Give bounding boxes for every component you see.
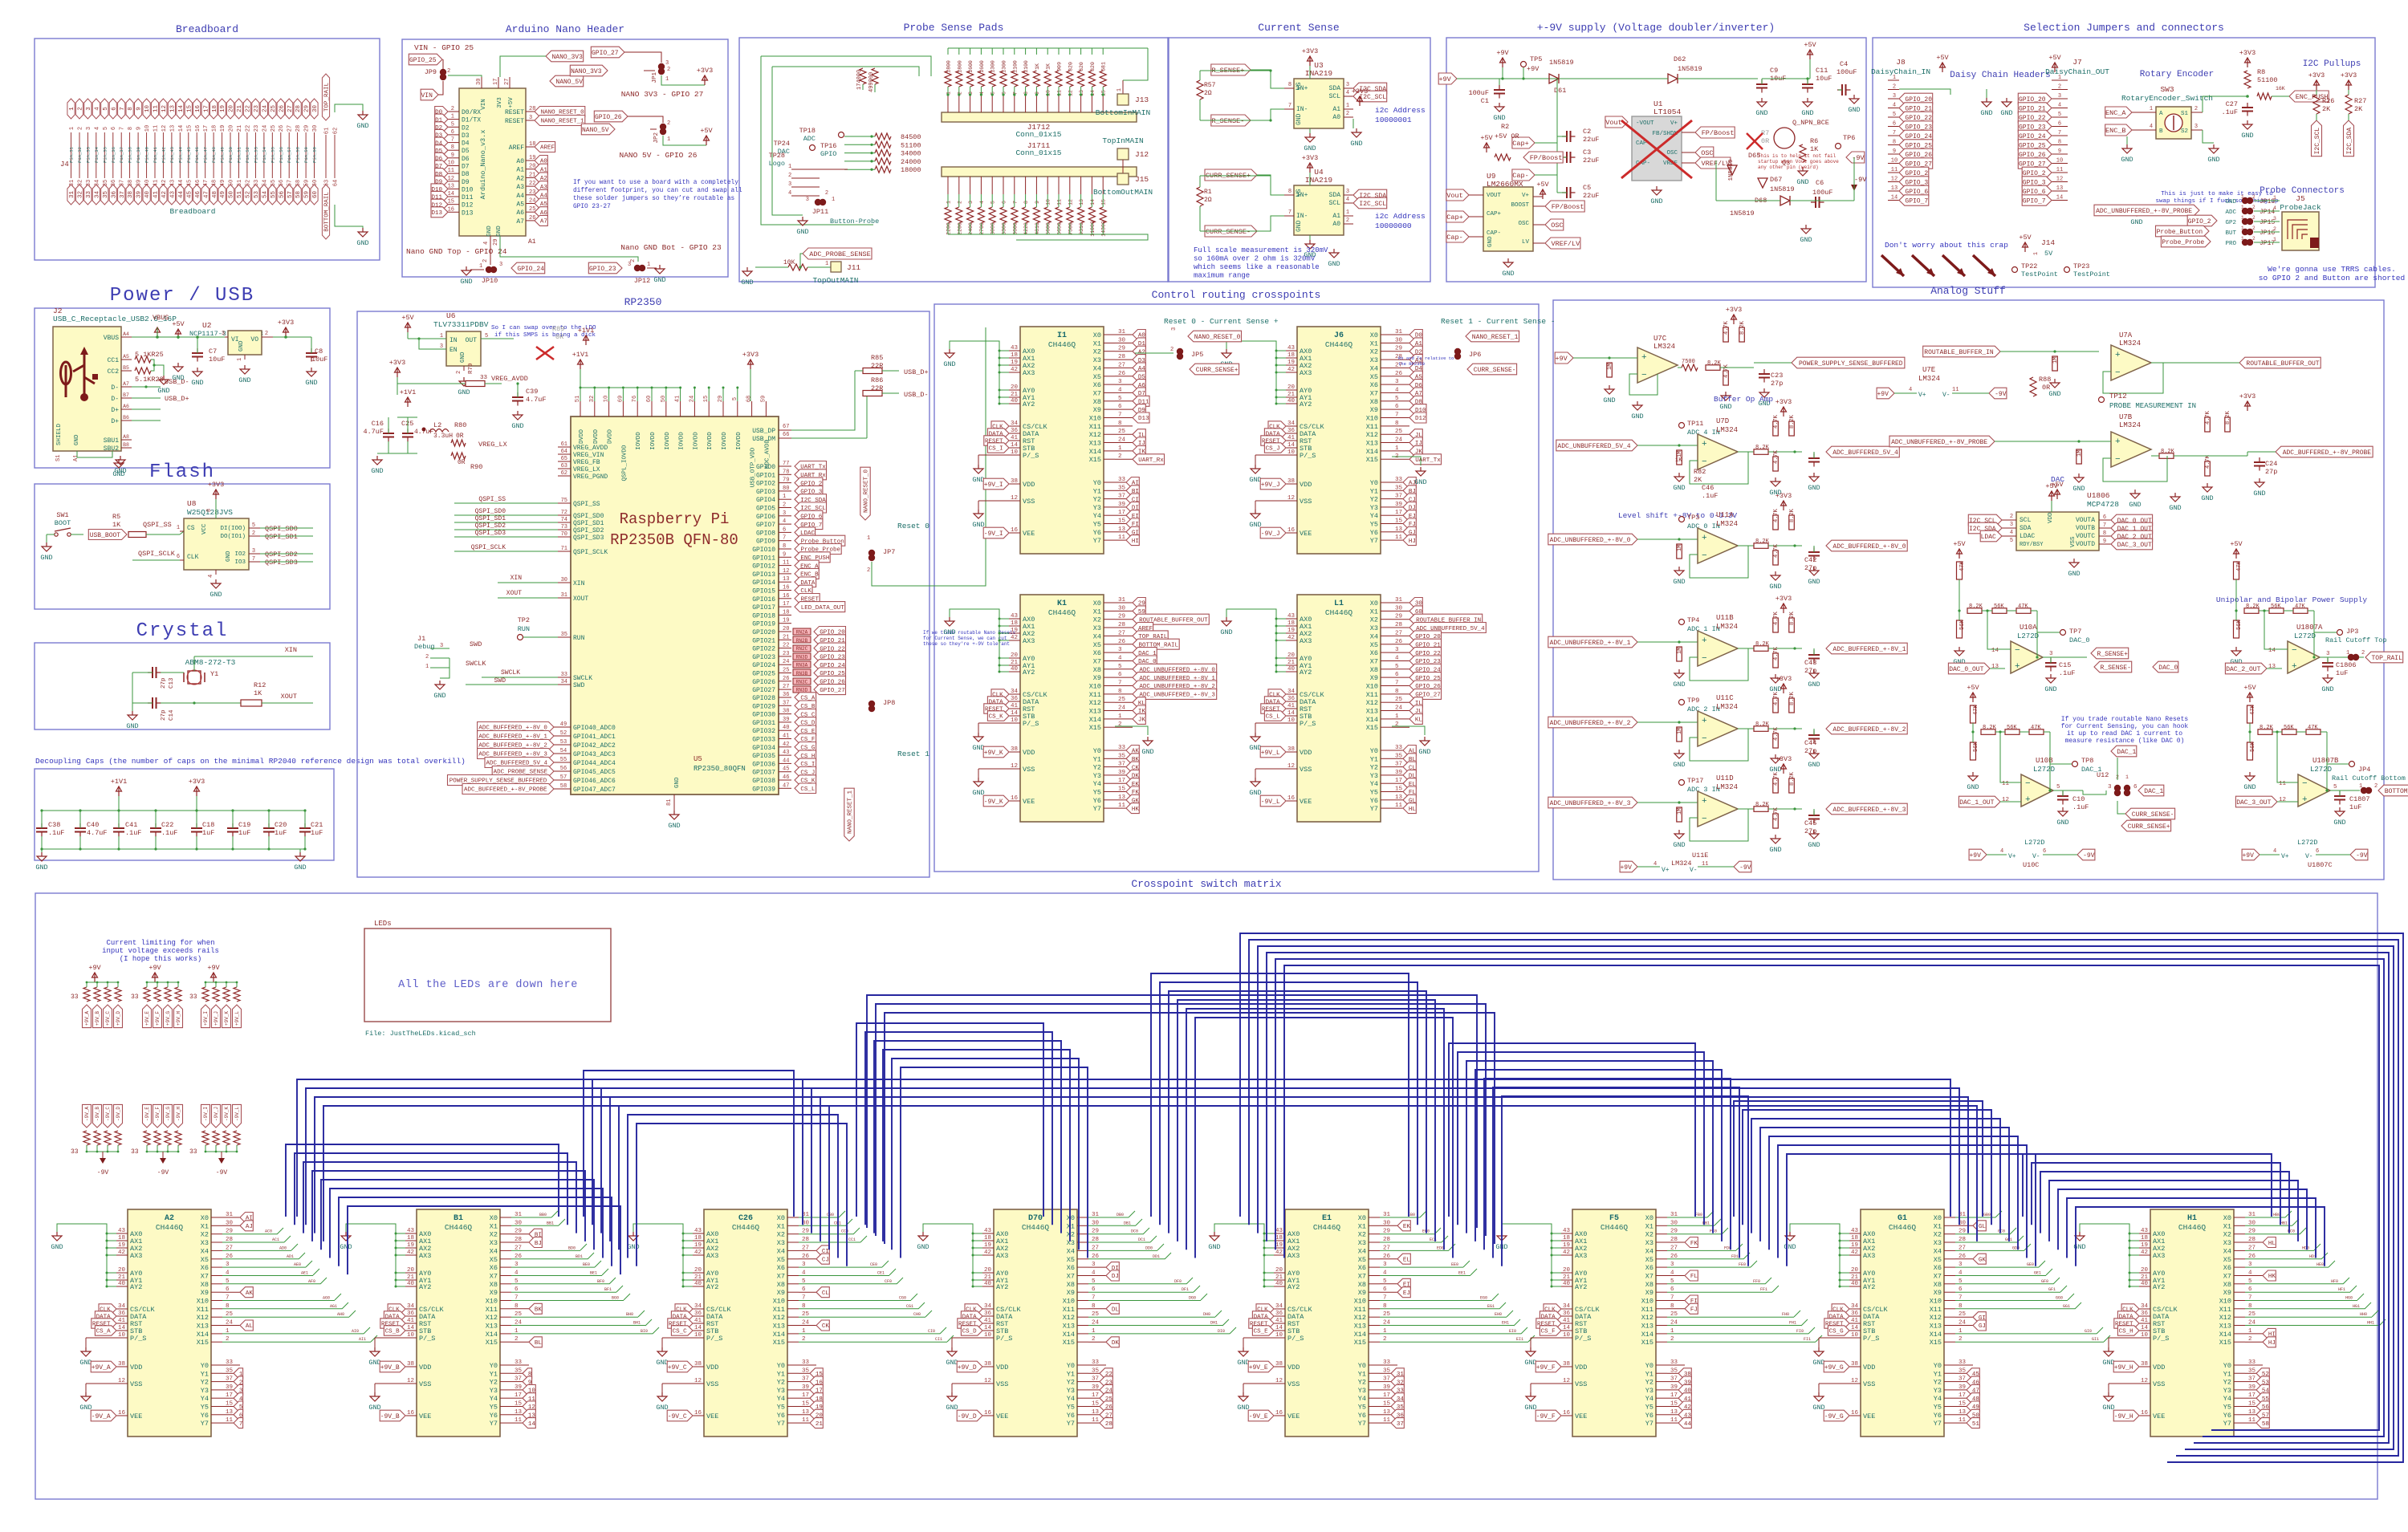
svg-text:36: 36 [1287,428,1296,434]
svg-text:12: 12 [1068,199,1073,205]
svg-text:X11: X11 [1354,1306,1366,1314]
svg-text:Y0: Y0 [1370,479,1378,487]
svg-text:S1: S1 [55,455,62,461]
svg-text:14: 14 [1851,1325,1859,1331]
svg-text:Analog Stuff: Analog Stuff [1930,285,2006,297]
svg-text:D1/TX: D1/TX [462,117,481,124]
svg-text:CH446Q: CH446Q [1889,1223,1917,1232]
svg-text:8.2K: 8.2K [1969,603,1983,610]
svg-text:AY2: AY2 [1023,668,1035,677]
svg-text:Y2: Y2 [1358,1379,1366,1387]
svg-text:VSS: VSS [1287,1380,1300,1388]
svg-text:BG0: BG0 [612,1296,619,1301]
svg-text:X7: X7 [490,1273,498,1281]
svg-text:7: 7 [252,556,255,563]
svg-text:NANO_5V: NANO_5V [582,127,609,134]
svg-text:3: 3 [2194,124,2198,130]
svg-text:DI(IOO): DI(IOO) [220,526,246,532]
svg-text:Pin_53: Pin_53 [253,147,258,163]
svg-text:33: 33 [189,994,197,1001]
svg-text:GND: GND [972,476,984,484]
svg-text:1300: 1300 [1002,60,1007,73]
svg-text:47K: 47K [2308,725,2318,731]
svg-text:43: 43 [1011,613,1019,620]
svg-text:Y0: Y0 [1645,1362,1653,1370]
svg-text:33: 33 [561,672,567,678]
svg-text:IOVDD: IOVDD [636,432,642,450]
svg-text:AX3: AX3 [706,1252,718,1260]
svg-text:AY2: AY2 [1287,1283,1300,1291]
svg-text:20: 20 [229,125,235,132]
svg-text:Y7: Y7 [1093,805,1101,813]
svg-text:U5: U5 [694,755,702,763]
svg-text:Pin_48: Pin_48 [211,147,217,163]
svg-text:18: 18 [1563,1235,1570,1241]
svg-text:+3V3: +3V3 [1302,154,1318,162]
svg-text:X14: X14 [1089,448,1101,456]
svg-text:VSS: VSS [706,1380,718,1388]
svg-text:HJ: HJ [2268,1340,2276,1347]
svg-text:9: 9 [2058,148,2061,155]
svg-text:16: 16 [118,1410,126,1416]
svg-text:GND: GND [917,1243,929,1251]
svg-text:29: 29 [304,105,311,112]
svg-text:GPIO30: GPIO30 [752,712,775,719]
svg-text:36: 36 [118,1311,126,1317]
svg-text:48: 48 [212,191,218,198]
svg-text:+3V3: +3V3 [742,351,759,359]
svg-text:+9V_I: +9V_I [203,1011,209,1026]
svg-text:J8: J8 [1896,58,1906,67]
svg-text:I1: I1 [1057,331,1067,340]
svg-text:11: 11 [2056,167,2063,173]
svg-text:V+: V+ [2008,853,2016,860]
svg-text:41: 41 [1851,1318,1859,1324]
svg-text:Pin_47: Pin_47 [203,147,209,163]
svg-text:Y4: Y4 [777,1395,785,1403]
svg-text:10: 10 [1011,449,1019,456]
svg-text:2: 2 [1893,84,1896,91]
svg-text:B6: B6 [123,415,129,421]
svg-text:1: 1 [2241,215,2244,221]
svg-text:Reset 1 - Current Sense -: Reset 1 - Current Sense - [1441,317,1556,326]
svg-text:X5: X5 [201,1256,209,1264]
svg-text:X8: X8 [1370,666,1378,674]
svg-text:59: 59 [760,396,767,402]
svg-text:VREG_PGND: VREG_PGND [573,473,608,481]
svg-text:LM324: LM324 [1671,859,1692,868]
svg-text:6: 6 [2043,848,2046,855]
svg-text:+1V1: +1V1 [400,388,416,396]
svg-text:CH446Q: CH446Q [1022,1223,1050,1232]
svg-text:1: 1 [177,525,180,531]
svg-text:820: 820 [1068,62,1073,71]
svg-text:GND: GND [157,387,169,395]
svg-text:SW1: SW1 [56,511,68,519]
svg-text:49: 49 [220,191,226,198]
svg-text:4: 4 [208,575,214,578]
svg-text:D9: D9 [462,179,470,186]
svg-text:GI1: GI1 [2092,1337,2099,1342]
svg-text:43: 43 [984,1228,992,1234]
svg-text:41: 41 [694,1318,702,1324]
svg-text:Y4: Y4 [1370,512,1378,520]
svg-text:1M: 1M [1677,545,1683,551]
svg-text:X10: X10 [1930,1298,1942,1306]
svg-text:X9: X9 [1093,674,1101,682]
svg-text:.1uF: .1uF [2222,108,2238,116]
svg-text:GPIO24: GPIO24 [752,662,775,669]
svg-text:Pin_51: Pin_51 [237,146,242,163]
svg-text:1: 1 [69,127,75,130]
svg-text:these so they’re +-9V tolerant: these so they’re +-9V tolerant [923,641,1010,647]
svg-text:Conn_01x15: Conn_01x15 [1015,148,1061,157]
svg-text:Y5: Y5 [1093,521,1101,529]
svg-text:CURR_SENSE+: CURR_SENSE+ [2128,823,2170,831]
svg-text:6: 6 [1002,201,1007,204]
svg-text:QSPI_SS: QSPI_SS [143,521,172,529]
svg-text:16: 16 [1287,527,1296,534]
svg-text:+9V_H: +9V_H [2114,1364,2133,1371]
svg-text:CS_D: CS_D [962,1329,978,1335]
svg-text:If you want to use a board wit: If you want to use a board with a comple… [573,180,738,186]
svg-text:U1807C: U1807C [2308,861,2333,869]
svg-text:IOVDD: IOVDD [665,432,671,450]
svg-text:Y2: Y2 [1645,1379,1653,1387]
svg-text:Y7: Y7 [1370,805,1378,813]
svg-text:−: − [1702,457,1707,467]
svg-text:8: 8 [451,144,454,151]
svg-text:8: 8 [1023,201,1029,204]
svg-text:GND: GND [946,1404,958,1412]
svg-text:VDD: VDD [1575,1363,1587,1371]
svg-text:X8: X8 [1067,1281,1075,1289]
svg-text:GND: GND [674,777,681,788]
svg-text:56K: 56K [2236,620,2243,630]
svg-text:UART_Tx: UART_Tx [1415,457,1441,464]
svg-text:X7: X7 [1934,1273,1942,1281]
svg-text:X5: X5 [1934,1256,1942,1264]
svg-text:27: 27 [504,79,510,85]
svg-text:A6: A6 [516,209,524,217]
svg-text:GND: GND [2225,199,2236,205]
svg-text:ADC_UNBUFFERED_+-8V_3: ADC_UNBUFFERED_+-8V_3 [1550,800,1631,807]
svg-text:1K: 1K [1046,63,1051,70]
svg-text:Y0: Y0 [777,1362,785,1370]
svg-text:X9: X9 [1934,1289,1942,1297]
svg-text:Buffer Op Amp: Buffer Op Amp [1714,395,1773,404]
svg-text:IO2: IO2 [234,551,246,558]
svg-text:U1807A: U1807A [2296,624,2323,632]
svg-text:1: 1 [451,114,454,120]
svg-text:SWD: SWD [573,682,585,689]
svg-text:14: 14 [1563,1325,1571,1331]
svg-text:DL: DL [1112,1307,1120,1314]
svg-text:AG1: AG1 [330,1304,337,1309]
svg-text:19: 19 [1275,1242,1283,1249]
svg-text:34: 34 [1287,421,1296,427]
svg-text:GND: GND [1808,761,1820,769]
svg-text:38: 38 [407,1361,414,1367]
svg-text:Unipolar and Bipolar Power Sup: Unipolar and Bipolar Power Supply [2216,595,2367,604]
svg-text:-9V_A: -9V_A [92,1413,111,1420]
svg-text:GND: GND [2056,819,2068,827]
svg-text:27: 27 [783,684,789,690]
svg-text:TP2: TP2 [518,616,530,624]
svg-text:VREG_AVDD: VREG_AVDD [573,445,608,452]
svg-text:U7A: U7A [2119,331,2133,339]
svg-text:GPIO 23-27: GPIO 23-27 [573,204,611,210]
svg-text:GND: GND [2102,1359,2114,1367]
svg-text:L2: L2 [433,421,441,429]
svg-text:X12: X12 [1063,1314,1075,1322]
svg-text:-9V: -9V [97,1169,109,1176]
svg-text:GPIO43_ADC3: GPIO43_ADC3 [573,751,616,758]
svg-text:BOOT: BOOT [55,519,71,527]
svg-text:Y3: Y3 [1358,1387,1366,1395]
svg-text:Y2: Y2 [1934,1379,1942,1387]
svg-text:VOUTB: VOUTB [2076,525,2095,532]
svg-text:AX3: AX3 [1023,637,1035,645]
svg-text:X2: X2 [1370,348,1378,356]
svg-text:41: 41 [1563,1318,1571,1324]
svg-text:X12: X12 [773,1314,785,1322]
svg-text:38: 38 [783,709,789,715]
svg-text:TP22: TP22 [2021,262,2037,270]
svg-text:6: 6 [2133,784,2138,790]
svg-text:GND: GND [2102,1404,2114,1412]
svg-text:AX3: AX3 [1575,1252,1587,1260]
svg-text:35: 35 [103,191,109,199]
svg-text:1: 1 [832,197,835,203]
svg-text:X4: X4 [1645,1247,1653,1255]
svg-text:5600: 5600 [1046,222,1051,235]
svg-text:CS_J: CS_J [1266,446,1280,453]
svg-text:TP23: TP23 [2073,262,2089,270]
svg-text:AK: AK [246,1290,254,1297]
svg-text:X12: X12 [1930,1314,1942,1322]
svg-text:-9V_C: -9V_C [105,1107,111,1121]
svg-text:V+: V+ [2281,853,2289,860]
svg-text:DD1: DD1 [1153,1254,1160,1259]
svg-text:44: 44 [178,191,185,199]
svg-text:RN3B: RN3B [796,671,808,677]
svg-text:C1806: C1806 [2336,661,2357,669]
svg-text:Pin_58: Pin_58 [295,147,301,163]
svg-text:+: + [1702,797,1707,807]
svg-text:VSS: VSS [1023,766,1035,774]
svg-text:1K: 1K [254,689,262,697]
svg-text:LM324: LM324 [1653,343,1675,351]
svg-text:X4: X4 [1067,1247,1075,1255]
svg-text:28: 28 [1105,1421,1112,1428]
svg-text:HL: HL [1409,807,1417,813]
svg-text:Crosspoint switch matrix: Crosspoint switch matrix [1131,878,1281,890]
svg-text:This is just to make it easy t: This is just to make it easy to [2161,191,2273,197]
svg-text:56K: 56K [1959,620,1966,630]
svg-text:6: 6 [111,127,117,130]
svg-text:8: 8 [2103,530,2106,537]
svg-text:GND: GND [433,692,445,700]
svg-text:Probe Sense Pads: Probe Sense Pads [904,22,1004,34]
svg-text:56K: 56K [2284,725,2294,731]
svg-text:SWD: SWD [470,640,482,648]
svg-text:X6: X6 [490,1264,498,1272]
svg-text:X8: X8 [201,1281,209,1289]
svg-text:1: 1 [825,261,828,267]
svg-text:10: 10 [448,161,454,167]
svg-text:18000: 18000 [901,166,921,174]
svg-text:.1uF: .1uF [48,829,64,837]
svg-text:Pin_36: Pin_36 [111,147,116,163]
svg-text:14: 14 [1287,710,1296,717]
svg-text:Y4: Y4 [1093,780,1101,788]
svg-text:GND: GND [656,1359,668,1367]
svg-text:X5: X5 [490,1256,498,1264]
svg-text:DH0: DH0 [1203,1312,1210,1317]
svg-text:+9V_A: +9V_A [84,1011,90,1026]
svg-text:GPIO: GPIO [820,150,836,158]
svg-text:47K: 47K [2031,725,2041,731]
svg-text:GND: GND [1220,628,1232,636]
svg-text:2K: 2K [2322,105,2331,113]
svg-text:+5V: +5V [2230,540,2243,548]
svg-text:L272D: L272D [2294,632,2316,640]
svg-text:4.7uF: 4.7uF [87,829,108,837]
svg-text:U11E: U11E [1692,851,1708,859]
svg-text:DAC_3_OUT: DAC_3_OUT [2117,542,2152,549]
svg-text:20: 20 [229,105,235,113]
svg-text:56K: 56K [2007,725,2017,731]
svg-text:SCL: SCL [1329,93,1341,100]
svg-text:D8: D8 [462,171,470,178]
svg-text:36: 36 [1287,696,1296,702]
svg-text:Full scale measurement is 320m: Full scale measurement is 320mV [1194,246,1328,254]
svg-text:1300: 1300 [990,60,996,73]
svg-text:DAC_0_OUT: DAC_0_OUT [1949,666,1983,673]
svg-text:J7: J7 [2072,58,2081,67]
svg-text:QSPI_SCLK: QSPI_SCLK [573,549,608,556]
svg-text:11: 11 [153,105,160,113]
svg-text:+9V_B: +9V_B [380,1364,400,1371]
svg-text:18: 18 [1287,620,1295,627]
svg-text:57: 57 [560,774,567,781]
svg-text:EL: EL [1403,1258,1411,1264]
svg-text:X13: X13 [486,1323,498,1331]
svg-text:34: 34 [984,1303,992,1310]
svg-text:NANO_RESET_0: NANO_RESET_0 [1194,334,1241,341]
svg-text:Y5: Y5 [201,1404,209,1412]
svg-text:X13: X13 [1366,440,1378,448]
svg-text:USB_D+: USB_D+ [904,368,929,376]
svg-text:GND: GND [656,1404,668,1412]
svg-text:21: 21 [2141,1274,2149,1281]
svg-text:Y3: Y3 [1093,772,1101,780]
svg-text:56K: 56K [2271,603,2281,610]
svg-text:Rail Cutoff Bottom: Rail Cutoff Bottom [2332,774,2406,782]
svg-text:-9V_A: -9V_A [84,1107,90,1121]
svg-text:GND: GND [172,374,184,382]
svg-text:LT1054: LT1054 [1653,108,1682,116]
svg-text:X9: X9 [1067,1289,1075,1297]
svg-text:X6: X6 [1934,1264,1942,1272]
svg-text:1uF: 1uF [2349,803,2361,811]
svg-text:GND: GND [1796,178,1808,186]
svg-text:38: 38 [118,1361,125,1367]
svg-text:8.2K: 8.2K [1755,538,1770,545]
svg-text:2: 2 [2252,194,2255,200]
svg-text:41: 41 [984,1318,992,1324]
svg-text:62: 62 [333,128,340,134]
svg-text:34: 34 [1287,689,1296,695]
svg-text:27p: 27p [2265,468,2277,476]
svg-text:27: 27 [287,125,294,132]
svg-text:10: 10 [1851,1332,1859,1339]
svg-text:HH1: HH1 [2367,1321,2374,1326]
svg-text:I2C Pullups: I2C Pullups [2303,59,2361,69]
svg-text:1: 1 [479,263,482,270]
svg-text:41: 41 [1287,435,1296,441]
svg-text:RUN: RUN [518,625,530,633]
svg-text:JP2: JP2 [653,132,660,144]
svg-text:GPIO11: GPIO11 [752,555,775,562]
svg-text:X4: X4 [1370,632,1378,640]
svg-text:10: 10 [1275,1332,1283,1339]
svg-text:CS: CS [187,525,195,532]
svg-text:X3: X3 [1358,1239,1366,1247]
svg-text:QSPL_IOVDD: QSPL_IOVDD [621,445,628,482]
svg-text:4: 4 [2273,205,2276,211]
svg-text:56: 56 [560,766,567,772]
svg-text:63: 63 [561,463,567,469]
svg-text:X1: X1 [1093,339,1101,347]
svg-text:−: − [2292,646,2297,656]
svg-text:Current limiting for when: Current limiting for when [106,939,214,947]
svg-text:GND: GND [1980,109,1992,117]
svg-text:A1: A1 [528,238,536,246]
svg-text:14: 14 [528,1421,536,1428]
svg-text:+9V_E: +9V_E [144,1011,150,1026]
svg-text:Y1: Y1 [1934,1370,1942,1378]
svg-text:BD1: BD1 [576,1254,583,1259]
svg-text:+5V: +5V [1936,54,1949,62]
svg-text:VDD: VDD [1863,1363,1875,1371]
svg-text:GND: GND [1350,140,1362,148]
svg-text:4.7K: 4.7K [1773,691,1780,705]
svg-text:7: 7 [2058,130,2061,136]
svg-text:C41: C41 [125,821,137,829]
svg-text:VSS: VSS [1300,498,1312,506]
svg-text:+9V_D: +9V_D [958,1364,977,1371]
svg-text:21: 21 [984,1274,992,1281]
svg-text:A4: A4 [123,331,129,337]
svg-text:DAC_1: DAC_1 [2117,749,2136,756]
svg-text:X7: X7 [2223,1273,2231,1281]
svg-text:18: 18 [984,1235,991,1241]
svg-text:Pin_52: Pin_52 [245,147,250,163]
svg-text:43: 43 [1851,1228,1859,1234]
svg-text:-9V_I: -9V_I [203,1107,209,1121]
svg-text:VEE: VEE [2153,1412,2165,1420]
svg-text:38: 38 [2141,1361,2148,1367]
svg-text:GPIO5: GPIO5 [756,506,775,513]
svg-text:C3: C3 [1583,148,1591,156]
svg-text:All the LEDs are down here: All the LEDs are down here [398,979,578,991]
svg-text:GND: GND [1328,260,1340,268]
svg-text:24: 24 [262,125,268,132]
svg-text:20: 20 [783,626,789,632]
svg-text:C44: C44 [1804,739,1816,747]
